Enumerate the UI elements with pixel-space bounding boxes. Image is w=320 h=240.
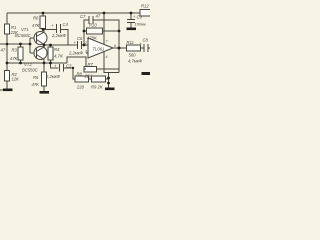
wire collector node xyxy=(44,44,77,46)
svg-text:R11: R11 xyxy=(127,40,134,45)
svg-text:2,2мкФ: 2,2мкФ xyxy=(51,33,67,38)
resistor R12 xyxy=(140,10,151,17)
svg-text:R10: R10 xyxy=(89,23,97,28)
capacitor C8 xyxy=(143,44,145,52)
junction C3-R8 branch xyxy=(72,67,74,69)
wire R1 to input node xyxy=(6,34,8,63)
svg-text:220: 220 xyxy=(76,85,85,90)
wire R7 right xyxy=(97,68,120,70)
svg-text:C9: C9 xyxy=(137,15,143,20)
svg-text:R12: R12 xyxy=(141,4,149,9)
wire R5 bottom xyxy=(43,86,45,91)
wire left branch vertical xyxy=(6,13,8,24)
svg-text:R6: R6 xyxy=(33,16,39,21)
svg-text:R9 2K: R9 2K xyxy=(91,85,103,90)
svg-text:47K: 47K xyxy=(32,23,40,28)
svg-text:4: 4 xyxy=(106,55,108,59)
wire R6 bottom to node xyxy=(42,29,44,30)
junction VT1 emitter node xyxy=(42,28,45,31)
junction R4 bottom-C3 xyxy=(49,62,52,65)
svg-text:2,2мкФ: 2,2мкФ xyxy=(68,51,84,56)
svg-text:2,2мкФ: 2,2мкФ xyxy=(45,74,61,79)
ground right xyxy=(105,88,115,91)
wire C8 to edge xyxy=(148,47,150,49)
resistor R1 xyxy=(5,24,10,34)
resistor R10 xyxy=(87,28,103,34)
resistor R4 xyxy=(48,47,53,60)
wire R4 bottom xyxy=(50,60,52,63)
junction ground branch upper xyxy=(107,77,110,80)
svg-text:100мк: 100мк xyxy=(135,22,147,27)
wire feedback vertical xyxy=(84,20,89,45)
wire R2 top xyxy=(6,63,8,71)
wire VT2 collector up xyxy=(43,45,45,47)
capacitor C3 xyxy=(59,64,61,72)
output common bar xyxy=(142,72,151,75)
wire R10 left xyxy=(84,30,87,32)
svg-text:560: 560 xyxy=(129,53,137,58)
wire feedback down to output xyxy=(118,31,120,48)
junction R1-input xyxy=(6,43,9,46)
junction R4 top xyxy=(49,44,52,47)
junction C9-rail xyxy=(130,12,133,15)
svg-text:47K: 47K xyxy=(32,82,40,87)
wire R10 right xyxy=(103,30,120,32)
wire top rail xyxy=(7,12,140,14)
wire R3 bottom xyxy=(20,60,22,63)
wire R5 top xyxy=(43,63,45,72)
capacitor C7 xyxy=(88,16,90,24)
wire to left edge bottom xyxy=(0,89,4,91)
resistor R6 xyxy=(40,16,46,29)
svg-text:4,7K: 4,7K xyxy=(54,54,64,59)
junction opamp inverting input xyxy=(83,44,86,47)
svg-text:TL061: TL061 xyxy=(93,47,105,52)
wire VT2 base xyxy=(30,52,37,54)
resistor R7 xyxy=(84,67,97,73)
wire bottom common y63 xyxy=(7,62,67,64)
svg-text:VT2: VT2 xyxy=(24,62,32,67)
capacitor C6 xyxy=(77,41,79,49)
transistor VT1 xyxy=(34,32,47,45)
svg-text:47: 47 xyxy=(1,48,6,53)
resistor R9 xyxy=(92,76,106,82)
wire ground branch right xyxy=(108,73,110,88)
resistor R2 xyxy=(5,71,10,82)
capacitor C9 xyxy=(130,13,132,19)
resistor R3 xyxy=(18,47,23,60)
svg-text:47: 47 xyxy=(96,14,101,19)
svg-text:C6: C6 xyxy=(77,36,83,41)
wire output to R11 xyxy=(113,47,127,49)
junction opamp supply-rail xyxy=(103,12,106,15)
ground R5 xyxy=(40,91,50,94)
svg-text:C7: C7 xyxy=(80,14,86,19)
svg-text:R3: R3 xyxy=(12,48,18,53)
junction R2 top xyxy=(6,62,9,65)
junction R3 bottom xyxy=(19,62,22,65)
svg-text:47K: 47K xyxy=(10,56,18,61)
svg-text:4,7мкФ: 4,7мкФ xyxy=(128,59,143,64)
wire R3 top xyxy=(20,44,22,47)
wire VT2 emitter down xyxy=(43,60,45,64)
wire VT1 base xyxy=(30,37,37,39)
wire R7 left xyxy=(84,68,86,70)
op-amp U1 TL061 xyxy=(88,38,113,58)
svg-text:R4: R4 xyxy=(54,47,60,52)
wire jog to pin3 xyxy=(67,57,86,69)
resistor R11 xyxy=(127,45,141,51)
svg-text:VT1: VT1 xyxy=(21,27,29,32)
svg-text:C3: C3 xyxy=(66,64,72,69)
ground C9 xyxy=(127,28,137,31)
wire pin3 stub xyxy=(86,52,88,54)
junction collectors xyxy=(43,44,46,47)
wire VT1 emitter up xyxy=(43,30,45,33)
pin numbers xyxy=(84,40,116,60)
junction base tie xyxy=(29,43,32,46)
wire R4 top xyxy=(50,45,52,47)
wire C7 right xyxy=(93,20,119,31)
svg-text:R7: R7 xyxy=(88,62,94,67)
resistor R8 xyxy=(75,76,89,82)
junction R6-rail xyxy=(42,12,45,15)
wire pin4 supply xyxy=(104,52,119,73)
wire base tie vertical xyxy=(29,38,31,53)
ground left xyxy=(3,89,13,92)
svg-text:22K: 22K xyxy=(84,74,93,79)
wire R11 to C8 xyxy=(141,47,144,49)
junction VT2 emitter-R5 xyxy=(43,62,46,65)
junction C7-R10 feedback xyxy=(118,30,121,33)
wire emitter node to C4 xyxy=(43,29,56,31)
svg-text:C8: C8 xyxy=(143,38,149,43)
svg-text:3: 3 xyxy=(85,50,87,54)
svg-text:2: 2 xyxy=(84,41,87,45)
wire R8-R9 xyxy=(89,78,92,80)
junction R3-input xyxy=(19,43,22,46)
svg-text:R8: R8 xyxy=(77,72,83,77)
wire input xyxy=(0,43,30,45)
wire R2 bottom xyxy=(6,81,8,89)
junction R9-ground branch xyxy=(107,82,110,85)
wire pin7 supply xyxy=(103,13,105,44)
svg-text:C4: C4 xyxy=(63,22,69,27)
capacitor C4 xyxy=(56,24,58,33)
svg-text:BC550C: BC550C xyxy=(22,68,39,73)
junction R10 left xyxy=(83,30,86,33)
resistor R5 xyxy=(42,72,47,86)
junction opamp output xyxy=(118,47,121,50)
wire C4 right down to collector wire xyxy=(61,30,69,46)
svg-text:12K: 12K xyxy=(12,77,20,82)
svg-text:470K: 470K xyxy=(87,36,97,41)
wire C3 stub down xyxy=(51,63,59,68)
wire output down xyxy=(118,48,120,73)
wire C3 right xyxy=(64,68,76,79)
svg-text:6: 6 xyxy=(114,44,116,48)
wire R6 top xyxy=(42,13,44,16)
wire R9 right xyxy=(106,78,109,80)
transistor VT2 xyxy=(34,47,47,60)
svg-text:BC560C: BC560C xyxy=(15,33,32,38)
wire C6 to opamp xyxy=(82,44,89,46)
svg-text:R5: R5 xyxy=(33,75,39,80)
